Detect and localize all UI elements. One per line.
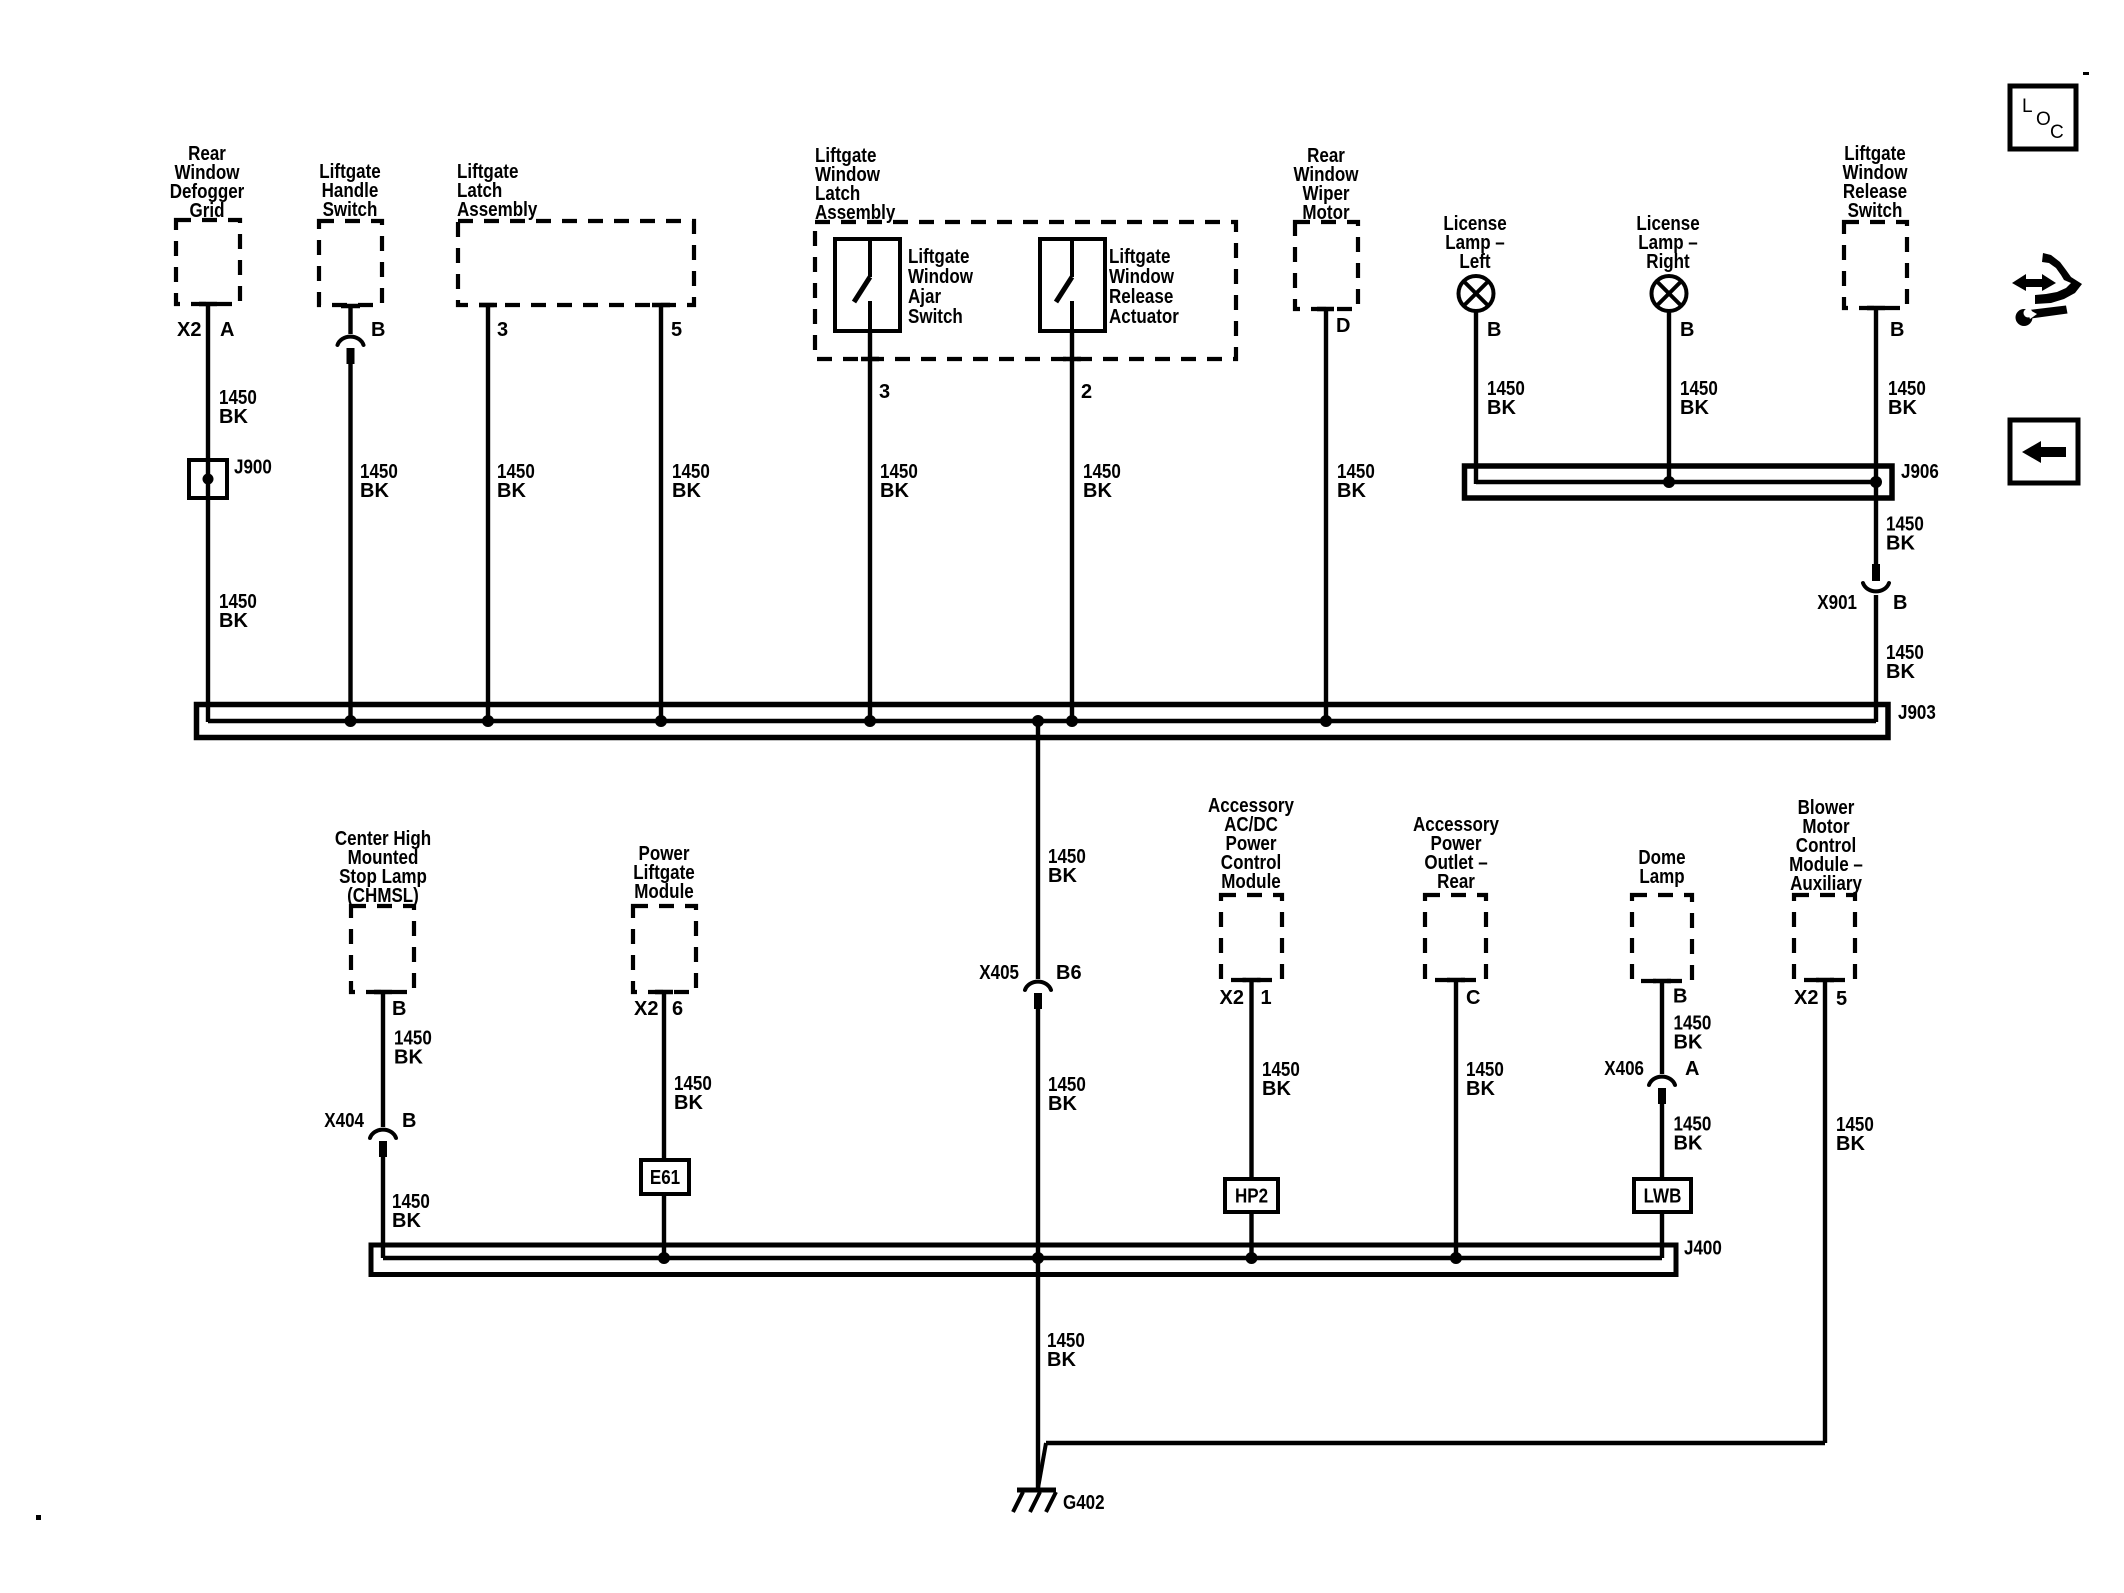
- svg-text:X901: X901: [1817, 592, 1857, 614]
- svg-text:X2: X2: [634, 998, 658, 1020]
- wire: 1450 BK ajar switch to J903: [868, 331, 872, 722]
- svg-text:B: B: [1893, 592, 1907, 614]
- junction dot: J903 junction ajar switch: [864, 715, 876, 727]
- splice J900 box: [189, 460, 227, 498]
- wire: 1450 BK release switch to X901: [1874, 308, 1878, 564]
- wire: 1450 BK X406 to LWB: [1660, 1104, 1664, 1179]
- wire: outlet stub: [1447, 978, 1465, 982]
- svg-text:B6: B6: [1056, 962, 1082, 984]
- svg-text:BK: BK: [1674, 1032, 1703, 1054]
- svg-text:B: B: [1487, 319, 1501, 341]
- wire: 1450 BK license left to J906: [1474, 311, 1478, 484]
- svg-text:2: 2: [1081, 381, 1092, 403]
- junction dot: J903 junction latch pin5: [655, 715, 667, 727]
- svg-text:Module: Module: [634, 881, 694, 903]
- svg-text:BK: BK: [1083, 480, 1112, 502]
- component box: Blower Motor Control Module Auxiliary: [1794, 895, 1855, 980]
- icon: data link connector / diagnostic symbol: [2012, 253, 2082, 326]
- component box: Power Liftgate Module: [633, 906, 696, 992]
- svg-text:BK: BK: [1047, 1349, 1076, 1371]
- icon: back arrow box: [2010, 420, 2078, 483]
- wire: 1450 BK defogger to J903: [206, 304, 210, 722]
- junction block LWB: [1634, 1179, 1691, 1212]
- svg-text:BK: BK: [1262, 1078, 1291, 1100]
- splice pack J903: [197, 705, 1889, 738]
- svg-text:(CHMSL): (CHMSL): [347, 885, 419, 907]
- svg-text:BK: BK: [219, 610, 248, 632]
- wire: 1450 BK outlet to J400: [1454, 980, 1458, 1258]
- wire: E61 to J400: [662, 1194, 666, 1258]
- junction dot: J903 junction release actuator: [1066, 715, 1078, 727]
- wire: 1450 BK license right to J906: [1667, 311, 1671, 482]
- component box: Accessory Power Outlet Rear: [1425, 895, 1486, 980]
- lamp symbol: License Lamp Right: [1652, 276, 1687, 311]
- svg-text:X404: X404: [324, 1110, 364, 1132]
- wire: 1450 BK PLM to E61: [662, 992, 666, 1160]
- inline connector X404 (arc over pin): [370, 1130, 396, 1138]
- stray mark bottom left: [36, 1515, 41, 1520]
- wire: J906 internal bus bar: [1476, 480, 1876, 484]
- icon: LOC box: [2010, 86, 2076, 149]
- svg-text:BK: BK: [1466, 1078, 1495, 1100]
- svg-text:BK: BK: [1886, 533, 1915, 555]
- wire: latch pin5 stub: [652, 303, 670, 307]
- wire: big box ajar bottom crossing stub: [861, 357, 879, 361]
- svg-text:Auxiliary: Auxiliary: [1790, 873, 1863, 895]
- wire: 1450 BK X404 to J400: [381, 1157, 385, 1258]
- svg-text:BK: BK: [674, 1092, 703, 1114]
- component box: Rear Window Wiper Motor: [1295, 222, 1358, 309]
- svg-text:E61: E61: [650, 1167, 680, 1189]
- inline connector X405 (arc over pin): [1025, 982, 1051, 990]
- svg-text:BK: BK: [672, 480, 701, 502]
- svg-text:BK: BK: [1674, 1133, 1703, 1155]
- svg-text:L: L: [2022, 96, 2033, 117]
- svg-text:G402: G402: [1063, 1492, 1105, 1514]
- switch symbol: release actuator switch: [1056, 241, 1072, 333]
- svg-text:Rear: Rear: [1437, 871, 1475, 893]
- wire: 1450 BK release actuator to J903: [1070, 331, 1074, 722]
- ground symbol G402: [1013, 1490, 1056, 1512]
- wire: defogger stub: [199, 302, 217, 306]
- lamp symbol: License Lamp Left: [1459, 276, 1494, 311]
- svg-text:X2: X2: [1794, 987, 1818, 1009]
- junction block HP2: [1225, 1179, 1278, 1212]
- stray mark top right: [2083, 72, 2089, 75]
- svg-text:5: 5: [671, 319, 682, 341]
- svg-text:5: 5: [1836, 988, 1847, 1010]
- svg-text:J906: J906: [1901, 461, 1939, 483]
- svg-text:O: O: [2036, 109, 2051, 130]
- svg-text:B: B: [1680, 319, 1694, 341]
- component box: Liftgate Window Release Switch: [1844, 222, 1907, 308]
- svg-text:Left: Left: [1459, 251, 1490, 273]
- wire: diagonal into ground junction: [1038, 1443, 1046, 1488]
- junction dot: J400 junction HP2: [1246, 1252, 1258, 1264]
- inline connector handle switch B (arc over pin): [338, 337, 364, 345]
- component box: CHMSL: [351, 906, 414, 992]
- wire: 1450 BK handle switch to J903: [348, 364, 352, 722]
- svg-text:BK: BK: [219, 406, 248, 428]
- svg-text:Release: Release: [1109, 286, 1173, 308]
- wire: 1450 BK J400 to ground G402: [1036, 1258, 1040, 1489]
- junction dot: J903 junction handle switch: [345, 715, 357, 727]
- svg-text:D: D: [1336, 315, 1350, 337]
- svg-text:BK: BK: [880, 480, 909, 502]
- wire: 1450 BK X405 to J400: [1036, 1009, 1040, 1258]
- component box: Liftgate Window Latch Assembly: [815, 222, 1236, 359]
- svg-text:HP2: HP2: [1235, 1186, 1268, 1208]
- svg-text:BK: BK: [1680, 397, 1709, 419]
- svg-text:BK: BK: [1048, 865, 1077, 887]
- svg-text:BK: BK: [360, 480, 389, 502]
- wire: PLM stub: [655, 990, 673, 994]
- svg-text:1: 1: [1261, 987, 1272, 1009]
- svg-text:BK: BK: [497, 480, 526, 502]
- inline connector X901 (pin over arc): [1872, 564, 1880, 581]
- wire: release switch stub: [1867, 306, 1885, 310]
- svg-text:B: B: [392, 998, 406, 1020]
- component box: Dome Lamp: [1632, 895, 1692, 981]
- svg-text:A: A: [1685, 1058, 1699, 1080]
- junction dot: J900 splice: [203, 474, 214, 485]
- icon: left arrow: [2022, 441, 2066, 463]
- svg-text:X2: X2: [177, 319, 201, 341]
- svg-text:J900: J900: [234, 457, 272, 479]
- svg-text:Switch: Switch: [908, 306, 963, 328]
- svg-text:LWB: LWB: [1644, 1186, 1682, 1208]
- svg-text:Lamp: Lamp: [1639, 866, 1684, 888]
- svg-text:Window: Window: [1109, 266, 1174, 288]
- svg-text:B: B: [1890, 319, 1904, 341]
- svg-text:Module: Module: [1221, 871, 1281, 893]
- svg-text:B: B: [371, 319, 385, 341]
- svg-text:BK: BK: [392, 1210, 421, 1232]
- svg-text:X2: X2: [1220, 987, 1244, 1009]
- svg-text:BK: BK: [1337, 480, 1366, 502]
- wire: J400 internal bus bar: [383, 1256, 1662, 1260]
- svg-text:6: 6: [672, 998, 683, 1020]
- junction block E61: [641, 1160, 689, 1194]
- svg-text:X405: X405: [979, 962, 1019, 984]
- wire: 1450 BK J903 to X405: [1036, 721, 1040, 979]
- svg-text:C: C: [2050, 122, 2064, 143]
- svg-text:Window: Window: [908, 266, 973, 288]
- wire: CHMSL stub: [374, 990, 392, 994]
- svg-text:C: C: [1466, 987, 1480, 1009]
- wire: blower module ground run: [1046, 1441, 1825, 1445]
- svg-text:Ajar: Ajar: [908, 286, 941, 308]
- svg-text:BK: BK: [1888, 397, 1917, 419]
- svg-text:3: 3: [497, 319, 508, 341]
- svg-text:B: B: [1673, 986, 1687, 1008]
- wire: 1450 BK ACDC module to HP2: [1249, 980, 1253, 1179]
- wire: handle switch stub: [341, 304, 360, 308]
- wire: 1450 BK dome lamp to X406: [1660, 981, 1664, 1074]
- junction dot: J400 junction PLM: [658, 1252, 670, 1264]
- svg-text:Switch: Switch: [1848, 200, 1903, 222]
- svg-text:3: 3: [879, 381, 890, 403]
- junction dot: J903 junction center tap: [1032, 715, 1044, 727]
- svg-text:BK: BK: [394, 1047, 423, 1069]
- switch symbol: ajar switch: [854, 241, 870, 333]
- svg-text:Right: Right: [1646, 251, 1690, 273]
- svg-text:Assembly: Assembly: [457, 199, 538, 221]
- wire: ACDC stub: [1243, 978, 1261, 982]
- wire: 1450 BK wiper motor to J903: [1324, 309, 1328, 722]
- component box: Accessory ACDC Power Control Module: [1221, 895, 1282, 980]
- svg-text:BK: BK: [1487, 397, 1516, 419]
- inline connector X406 (arc over pin): [1649, 1077, 1675, 1085]
- svg-text:Liftgate: Liftgate: [908, 246, 969, 268]
- junction dot: J906 right lamp junction: [1663, 476, 1675, 488]
- splice pack J400: [371, 1245, 1676, 1275]
- svg-text:Liftgate: Liftgate: [1109, 246, 1170, 268]
- junction dot: J400 junction outlet: [1450, 1252, 1462, 1264]
- svg-text:B: B: [402, 1110, 416, 1132]
- wire: LWB to J400: [1660, 1212, 1664, 1258]
- wire: J903 internal bus bar: [208, 719, 1876, 723]
- wire: handle switch pin wire: [348, 306, 352, 334]
- wire: wiper stub: [1317, 307, 1334, 311]
- wire: dome stub: [1653, 979, 1671, 983]
- wire: big box actuator bottom crossing stub: [1063, 357, 1081, 361]
- junction dot: J903 junction latch pin3: [482, 715, 494, 727]
- svg-text:Switch: Switch: [323, 199, 378, 221]
- wire: 1450 BK blower module down: [1823, 980, 1827, 1443]
- wire: 1450 BK CHMSL to X404: [381, 992, 385, 1127]
- wire: 1450 BK latch pin5 to J903: [659, 305, 663, 722]
- component box: Rear Window Defogger Grid: [176, 220, 240, 304]
- wire: 1450 BK X901 to J903: [1874, 595, 1878, 722]
- svg-text:BK: BK: [1886, 661, 1915, 683]
- component box: Liftgate Handle Switch: [319, 221, 382, 305]
- svg-text:BK: BK: [1048, 1093, 1077, 1115]
- svg-text:J400: J400: [1684, 1238, 1722, 1260]
- Liftgate Window Release Actuator box: [1040, 239, 1105, 331]
- junction dot: J903 junction wiper motor: [1320, 715, 1332, 727]
- svg-text:A: A: [220, 319, 234, 341]
- wire: latch pin3 stub: [479, 303, 497, 307]
- svg-text:BK: BK: [1836, 1133, 1865, 1155]
- splice pack J906: [1465, 466, 1893, 498]
- svg-text:Actuator: Actuator: [1109, 306, 1179, 328]
- wire: 1450 BK latch pin3 to J903: [486, 305, 490, 722]
- junction dot: J906 release switch junction: [1870, 476, 1882, 488]
- wire: HP2 to J400: [1249, 1212, 1253, 1258]
- junction dot: J400 junction center: [1032, 1252, 1044, 1264]
- wire: blower stub: [1816, 978, 1834, 982]
- svg-text:J903: J903: [1898, 702, 1936, 724]
- Liftgate Window Ajar Switch box: [835, 239, 900, 331]
- component box: Liftgate Latch Assembly: [458, 221, 694, 305]
- svg-text:X406: X406: [1604, 1058, 1644, 1080]
